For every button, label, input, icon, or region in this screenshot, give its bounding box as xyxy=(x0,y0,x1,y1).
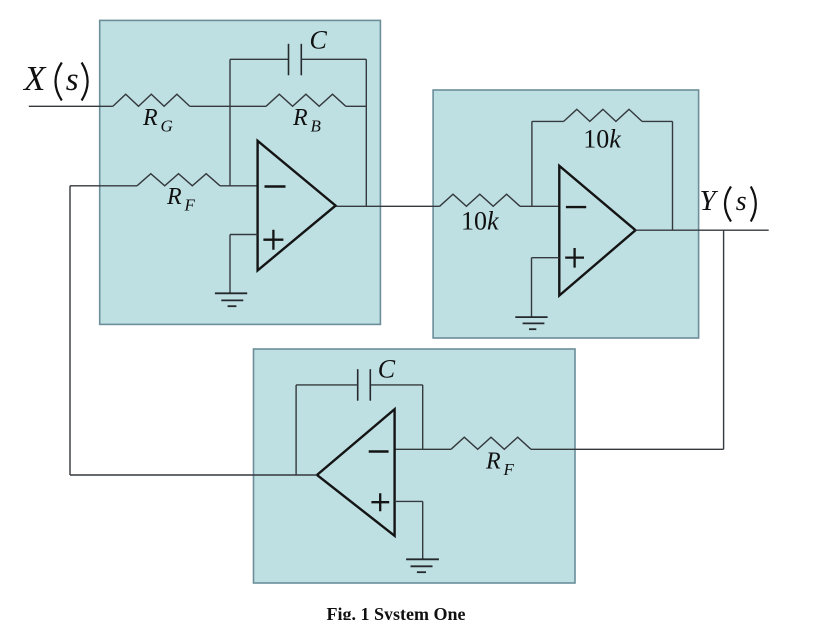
wire feedback riser from bottom stage xyxy=(69,186,71,475)
value label RF (stage 3) xyxy=(485,449,515,480)
label Y(s) xyxy=(700,185,756,222)
wire ground riser (input stage) xyxy=(229,235,231,294)
block box 1 (input op-amp stage) xyxy=(100,20,381,324)
resistor 10k (stage 2 input) xyxy=(440,194,520,206)
wire feedback right riser (stage 2) xyxy=(672,121,674,230)
wire ground riser (stage 2) xyxy=(531,258,533,317)
svg-text:s: s xyxy=(736,186,747,217)
wire feedback top lead xyxy=(532,120,564,122)
resistor RF (input stage) xyxy=(137,174,220,186)
node junction riser (RG/RB/C/minus net) xyxy=(229,59,231,186)
wire output (stage 3) to feedback riser xyxy=(70,474,317,476)
value label RG xyxy=(142,105,173,136)
resistor RB xyxy=(266,94,346,106)
wire RF lead xyxy=(70,185,137,187)
ground (input stage) xyxy=(215,293,247,306)
wire 10k to op-amp 2 minus xyxy=(520,205,559,207)
resistor RF (stage 3) xyxy=(451,437,531,449)
value label RB xyxy=(292,105,322,136)
wire plus input lead (stage 2) xyxy=(532,257,560,259)
wire capacitor branch right (stage 3) xyxy=(370,384,422,386)
wire RB to right riser xyxy=(346,105,367,107)
wire ground riser (stage 3) xyxy=(422,501,424,559)
wire plus input lead (stage 3) xyxy=(395,500,423,502)
wire minus lead (stage 3) xyxy=(395,448,451,450)
resistor 10k (stage 2 feedback) xyxy=(564,109,642,121)
wire X(s) input lead xyxy=(29,105,113,107)
op-amp U3 (left-pointing) xyxy=(317,409,395,536)
svg-text:B: B xyxy=(311,117,322,136)
wire right riser to output xyxy=(365,59,367,206)
wire Y branch riser down xyxy=(723,230,725,449)
svg-text:10: 10 xyxy=(461,207,487,236)
wire RG to junction xyxy=(190,105,230,107)
svg-text:10: 10 xyxy=(583,125,609,154)
op-amp U1 xyxy=(258,141,336,271)
ground (stage 3) xyxy=(406,559,439,572)
wire RF to op-amp minus xyxy=(220,185,258,187)
block box 3 (feedback integrator stage) xyxy=(254,349,576,583)
capacitor C (stage 3) xyxy=(358,369,371,401)
wire plus input lead xyxy=(230,234,258,236)
wire capacitor branch left xyxy=(230,58,289,60)
svg-text:Fig. 1 System One: Fig. 1 System One xyxy=(327,604,466,620)
svg-text:R: R xyxy=(292,105,308,131)
resistor RG xyxy=(113,94,190,106)
wire output Y(s) xyxy=(636,229,769,231)
svg-text:R: R xyxy=(485,449,501,475)
wire cap left riser to output (stage 3) xyxy=(295,385,297,475)
value label 10k (input) xyxy=(461,207,499,236)
value label RF (input stage) xyxy=(166,184,196,215)
svg-text:Y: Y xyxy=(700,185,719,217)
label X(s) xyxy=(22,59,88,101)
node C branch riser (stage 3) xyxy=(422,385,424,449)
svg-text:G: G xyxy=(161,117,173,136)
svg-text:F: F xyxy=(503,460,515,479)
svg-text:s: s xyxy=(66,62,79,98)
wire feedback left riser (stage 2) xyxy=(531,121,533,206)
wire op-amp1 output to stage 2 xyxy=(336,205,440,207)
wire capacitor to left riser xyxy=(296,384,358,386)
capacitor C (input stage) xyxy=(289,44,302,76)
svg-text:R: R xyxy=(166,184,182,210)
svg-text:C: C xyxy=(310,26,328,55)
svg-text:k: k xyxy=(609,125,621,154)
wire capacitor to right riser xyxy=(301,58,366,60)
value label 10k (feedback) xyxy=(583,125,621,154)
svg-text:R: R xyxy=(142,105,158,131)
block box 2 (inverting 10k stage) xyxy=(433,90,698,338)
wire feedback to right riser xyxy=(642,120,673,122)
ground (stage 2) xyxy=(515,317,547,329)
wire junction to RB xyxy=(230,105,266,107)
op-amp U2 xyxy=(559,166,635,296)
wire RF to Y riser xyxy=(531,448,724,450)
svg-text:k: k xyxy=(487,207,499,236)
svg-text:X: X xyxy=(22,59,47,98)
svg-text:C: C xyxy=(378,355,396,384)
svg-text:F: F xyxy=(184,196,196,215)
